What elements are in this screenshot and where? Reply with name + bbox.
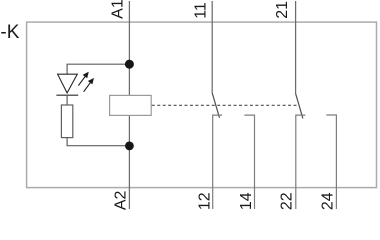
svg-text:A2: A2 xyxy=(113,190,130,210)
junction node at A1/LED branch xyxy=(125,60,134,69)
wire LED branch top xyxy=(67,64,129,74)
LED light arrow 2 xyxy=(84,79,94,92)
LED diode triangle xyxy=(58,74,78,93)
mechanical link dashed line xyxy=(152,104,298,106)
resistor R xyxy=(61,105,72,138)
svg-text:12: 12 xyxy=(196,192,213,210)
svg-text:24: 24 xyxy=(320,192,337,210)
contact 14 hook xyxy=(244,115,254,209)
svg-text:21: 21 xyxy=(274,1,291,19)
LED light arrow 1 xyxy=(78,72,88,85)
contact 12 hook xyxy=(213,115,222,209)
svg-text:-K: -K xyxy=(0,22,19,43)
wire terminal 11 stub xyxy=(211,1,213,93)
wire A1 terminal stub + coil feed xyxy=(128,1,130,95)
wire bar-to-resistor xyxy=(66,95,68,105)
contact blade 21-22 xyxy=(296,94,303,119)
contact 24 hook xyxy=(326,115,336,209)
svg-text:A1: A1 xyxy=(110,0,127,19)
wire terminal 21 stub xyxy=(295,1,297,94)
relay coil K xyxy=(110,95,152,115)
contact 22 hook xyxy=(296,115,306,209)
LED cathode bar xyxy=(56,94,78,96)
wire resistor bottom to junction xyxy=(67,138,129,146)
svg-text:22: 22 xyxy=(279,192,296,210)
svg-text:11: 11 xyxy=(192,2,209,19)
junction node at A2/resistor branch xyxy=(125,142,134,151)
module border frame xyxy=(27,22,377,188)
svg-text:14: 14 xyxy=(238,192,255,210)
wire A2 terminal stub from coil bottom xyxy=(128,115,130,209)
contact blade 11-12 xyxy=(212,93,219,118)
